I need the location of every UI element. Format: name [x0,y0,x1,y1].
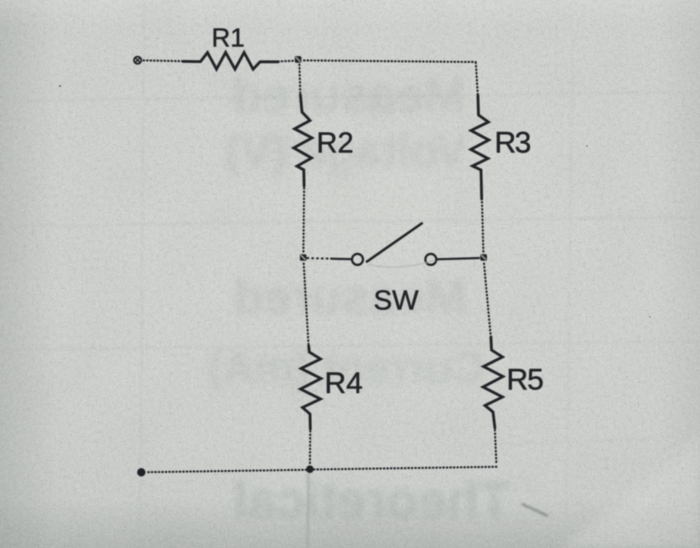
svg-text:SW: SW [374,285,420,316]
svg-text:R3: R3 [495,127,531,160]
wire: T1 to R1 left lead (dotted) [144,59,184,62]
resistor R4 [301,346,322,429]
resistor R1 [183,52,278,69]
svg-text:R1: R1 [212,23,245,53]
wire: R1 to junction J1 (dotted) [278,60,294,63]
wire: J3 down to R5 (dotted) [484,264,491,338]
node: top junction J1 [295,56,302,63]
wire: R4 to bottom junction J4 (dotted) [309,431,311,465]
switch SW [352,223,436,267]
wire: R2 to junction J2 (dotted) [302,188,305,252]
wire: J2 to switch left contact [308,257,332,260]
wire: top-right corner down to R3 (dotted) [476,63,478,96]
wire: J1 to top-right corner (dotted) [304,60,476,62]
wire: bottom-right corner to J4 (dotted) [314,467,497,470]
node: right switch junction J3 [480,254,487,261]
wire: J4 to T2 (dotted) [146,470,306,472]
svg-text:R5: R5 [507,364,544,397]
svg-text:R2: R2 [317,128,354,160]
resistor R2 [294,95,312,186]
resistor R3 [471,96,489,200]
terminal T2 (bottom-left input) [138,469,145,476]
node: bottom junction J4 [306,465,314,473]
wire: R5 to bottom-right corner (dotted) [495,430,497,464]
svg-text:R4: R4 [325,367,363,400]
terminal T1 (top-left input) [134,57,141,64]
wire: R3 to junction J3 (dotted) [482,202,483,252]
node: left switch junction J2 [300,254,307,261]
wire: J2 down to R4 (dotted) [304,264,309,347]
wire: switch right contact to J3 [436,258,479,259]
resistor R5 [483,337,503,428]
wire: J1 down to R2 (dotted) [298,65,301,96]
